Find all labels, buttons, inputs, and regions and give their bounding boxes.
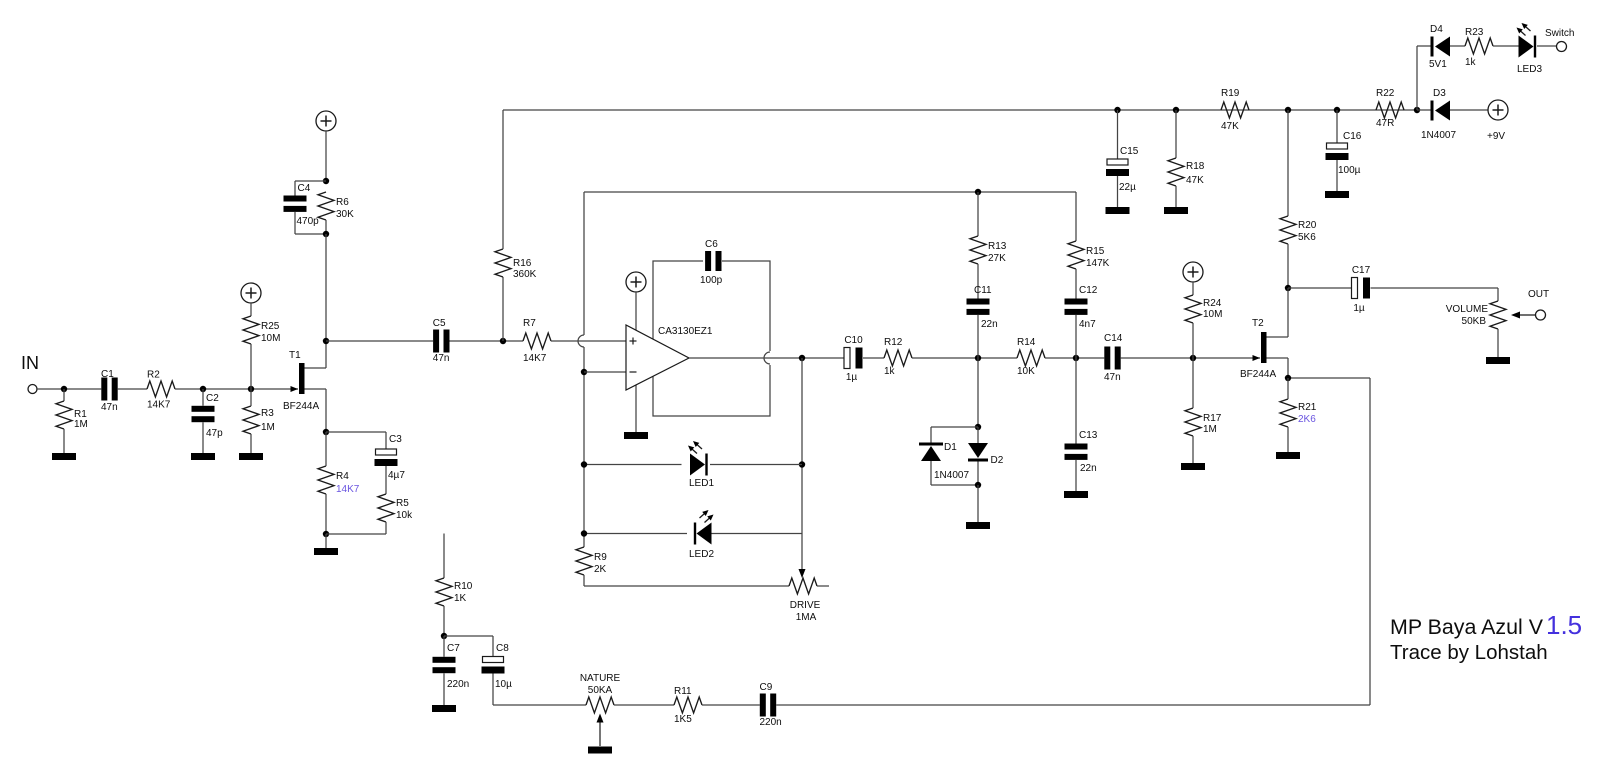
wire bbox=[1417, 45, 1431, 47]
svg-text:2K: 2K bbox=[594, 564, 607, 575]
wire bbox=[325, 432, 327, 466]
svg-text:R5: R5 bbox=[396, 498, 409, 509]
svg-text:1k: 1k bbox=[1465, 57, 1477, 68]
capacitor C2 bbox=[192, 393, 224, 439]
svg-text:27K: 27K bbox=[988, 253, 1006, 264]
wire bbox=[1288, 377, 1370, 379]
wire bbox=[1045, 357, 1104, 359]
svg-text:10K: 10K bbox=[1017, 366, 1035, 377]
svg-text:C12: C12 bbox=[1079, 285, 1098, 296]
ground bbox=[314, 548, 338, 555]
svg-text:47n: 47n bbox=[433, 353, 450, 364]
wire bbox=[931, 484, 978, 486]
wire bbox=[1267, 357, 1289, 359]
svg-text:4n7: 4n7 bbox=[1079, 319, 1096, 330]
capacitor C9 bbox=[760, 682, 782, 728]
junction bbox=[1285, 107, 1291, 113]
wire bbox=[385, 432, 387, 449]
junction bbox=[200, 386, 206, 392]
svg-text:LED1: LED1 bbox=[689, 478, 714, 489]
wire bbox=[583, 347, 585, 547]
svg-text:Switch: Switch bbox=[1545, 28, 1574, 39]
wire bbox=[502, 277, 504, 341]
wire bbox=[325, 534, 327, 548]
svg-text:R3: R3 bbox=[261, 408, 274, 419]
svg-text:D2: D2 bbox=[991, 455, 1004, 466]
svg-text:C7: C7 bbox=[447, 643, 460, 654]
wire bbox=[614, 704, 674, 706]
wire bbox=[1175, 110, 1177, 158]
wire bbox=[931, 426, 978, 428]
diode D4 bbox=[1429, 24, 1450, 70]
svg-text:R19: R19 bbox=[1221, 88, 1240, 99]
wire bbox=[1075, 269, 1077, 299]
svg-text:1M: 1M bbox=[1203, 424, 1217, 435]
wire bbox=[635, 292, 637, 432]
capacitor C8 bbox=[482, 643, 513, 690]
svg-text:OUT: OUT bbox=[1528, 289, 1549, 300]
svg-text:NATURE: NATURE bbox=[580, 673, 621, 684]
op-amp U1 bbox=[626, 325, 713, 390]
ground bbox=[1181, 463, 1205, 470]
wire bbox=[1450, 109, 1488, 111]
wire bbox=[1287, 427, 1289, 452]
wire bbox=[1175, 186, 1177, 207]
junction bbox=[799, 355, 805, 361]
wire bbox=[977, 315, 979, 358]
junction bbox=[975, 189, 981, 195]
power +9V bbox=[1488, 100, 1508, 120]
resistor R2 bbox=[147, 370, 175, 411]
diode D2 bbox=[968, 443, 1004, 466]
svg-text:BF244A: BF244A bbox=[283, 401, 319, 412]
capacitor C15 bbox=[1106, 146, 1139, 193]
wire bbox=[1075, 315, 1077, 358]
junction bbox=[975, 482, 981, 488]
capacitor C14 bbox=[1104, 333, 1123, 383]
wire - top rail bbox=[503, 109, 1417, 111]
svg-text:R23: R23 bbox=[1465, 27, 1484, 38]
svg-text:147K: 147K bbox=[1086, 258, 1110, 269]
power +V bbox=[316, 111, 336, 131]
svg-text:D1: D1 bbox=[944, 442, 957, 453]
svg-text:47K: 47K bbox=[1221, 121, 1239, 132]
transistor T2 bbox=[1240, 318, 1276, 380]
junction bbox=[581, 530, 587, 536]
wire bbox=[1075, 358, 1077, 444]
svg-text:1K: 1K bbox=[454, 593, 467, 604]
wire bbox=[305, 367, 327, 369]
svg-text:2K6: 2K6 bbox=[1298, 414, 1316, 425]
svg-text:Trace by Lohstah: Trace by Lohstah bbox=[1390, 641, 1548, 664]
svg-text:10M: 10M bbox=[261, 333, 280, 344]
wire hop bbox=[578, 335, 584, 347]
wire - second rail bbox=[584, 191, 1076, 193]
resistor R22 bbox=[1376, 88, 1404, 129]
ground bbox=[432, 705, 456, 712]
output terminal bbox=[1536, 310, 1546, 320]
wire bbox=[443, 636, 445, 657]
wire bbox=[250, 389, 252, 406]
svg-text:100µ: 100µ bbox=[1338, 165, 1361, 176]
junction bbox=[323, 231, 329, 237]
svg-text:T2: T2 bbox=[1252, 318, 1264, 329]
resistor R16 bbox=[495, 249, 537, 280]
svg-text:R6: R6 bbox=[336, 197, 349, 208]
ground bbox=[1164, 207, 1188, 214]
power +V bbox=[1183, 262, 1203, 282]
svg-text:50KA: 50KA bbox=[588, 685, 613, 696]
resistor R7 bbox=[523, 318, 551, 364]
capacitor C6 bbox=[700, 239, 723, 286]
svg-text:5K6: 5K6 bbox=[1298, 232, 1316, 243]
resistor DRIVE pot bbox=[789, 578, 817, 594]
junction bbox=[1285, 375, 1291, 381]
svg-text:C17: C17 bbox=[1352, 265, 1371, 276]
svg-text:1.5: 1.5 bbox=[1546, 610, 1582, 640]
svg-text:22n: 22n bbox=[1080, 463, 1097, 474]
resistor R9 bbox=[576, 547, 607, 575]
potentiometer VOLUME wiper arrow bbox=[1511, 312, 1536, 319]
svg-text:D4: D4 bbox=[1430, 24, 1443, 35]
svg-text:VOLUME: VOLUME bbox=[1446, 304, 1489, 315]
wire bbox=[912, 357, 1017, 359]
wire hop bbox=[764, 351, 772, 365]
svg-text:R16: R16 bbox=[513, 258, 532, 269]
wire bbox=[443, 606, 445, 636]
junction bbox=[1414, 107, 1420, 113]
wire bbox=[295, 180, 326, 182]
svg-text:47R: 47R bbox=[1376, 118, 1394, 129]
resistor R11 bbox=[674, 686, 702, 725]
wire bbox=[977, 264, 979, 299]
wire bbox=[326, 340, 433, 342]
ground bbox=[1325, 191, 1349, 198]
wire bbox=[250, 434, 252, 453]
svg-text:C2: C2 bbox=[206, 393, 219, 404]
svg-text:BF244A: BF244A bbox=[1240, 369, 1276, 380]
wire bbox=[1192, 358, 1194, 408]
svg-text:1M: 1M bbox=[261, 422, 275, 433]
junction bbox=[1173, 107, 1179, 113]
capacitor C10 bbox=[844, 335, 863, 383]
power +V bbox=[241, 283, 261, 303]
svg-text:R10: R10 bbox=[454, 581, 473, 592]
svg-text:T1: T1 bbox=[289, 350, 301, 361]
svg-text:1N4007: 1N4007 bbox=[1421, 130, 1456, 141]
wire bbox=[325, 389, 327, 432]
junction bbox=[1114, 107, 1120, 113]
wire bbox=[551, 340, 626, 342]
svg-text:22n: 22n bbox=[981, 319, 998, 330]
resistor R19 bbox=[1221, 88, 1249, 132]
svg-text:1µ: 1µ bbox=[846, 372, 858, 383]
svg-text:R15: R15 bbox=[1086, 246, 1105, 257]
svg-text:30K: 30K bbox=[336, 209, 354, 220]
wire bbox=[326, 533, 386, 535]
LED LED1 bbox=[688, 441, 714, 489]
switch terminal bbox=[1557, 42, 1567, 52]
wire bbox=[583, 575, 585, 586]
svg-text:D3: D3 bbox=[1433, 88, 1446, 99]
svg-text:47p: 47p bbox=[206, 428, 223, 439]
wire bbox=[712, 533, 803, 535]
svg-text:22µ: 22µ bbox=[1119, 182, 1136, 193]
wire bbox=[584, 585, 789, 587]
svg-text:1K5: 1K5 bbox=[674, 714, 692, 725]
resistor R23 bbox=[1465, 27, 1493, 68]
junction bbox=[975, 424, 981, 430]
wire - output bbox=[689, 357, 845, 359]
junction bbox=[61, 386, 67, 392]
wire bbox=[977, 192, 979, 236]
svg-text:R21: R21 bbox=[1298, 402, 1317, 413]
resistor R13 bbox=[970, 236, 1007, 264]
resistor R25 bbox=[243, 316, 280, 344]
title text bbox=[1390, 610, 1582, 664]
wire bbox=[385, 466, 387, 494]
wire - bottom rail bbox=[493, 704, 586, 706]
wire bbox=[1287, 288, 1289, 337]
wire bbox=[1287, 110, 1289, 216]
junction bbox=[500, 338, 506, 344]
svg-text:C5: C5 bbox=[433, 318, 446, 329]
wire bbox=[492, 636, 494, 657]
ground bbox=[624, 432, 648, 439]
svg-text:R11: R11 bbox=[674, 686, 692, 697]
resistor R10 bbox=[436, 578, 473, 606]
wire - right feedback riser bbox=[1369, 378, 1371, 705]
ground bbox=[191, 453, 215, 460]
svg-text:R17: R17 bbox=[1203, 413, 1222, 424]
ground bbox=[588, 747, 612, 754]
svg-text:C15: C15 bbox=[1120, 146, 1139, 157]
wire bbox=[1450, 45, 1465, 47]
svg-text:R9: R9 bbox=[594, 552, 607, 563]
wire bbox=[1416, 46, 1418, 110]
wire bbox=[584, 464, 682, 466]
resistor NATURE pot bbox=[586, 697, 614, 713]
wire bbox=[1117, 176, 1119, 207]
resistor R4 bbox=[318, 466, 334, 494]
svg-text:47n: 47n bbox=[1104, 372, 1121, 383]
wire bbox=[1417, 109, 1431, 111]
resistor R3 bbox=[243, 406, 275, 434]
resistor R14 bbox=[1017, 337, 1045, 377]
svg-text:R12: R12 bbox=[884, 337, 903, 348]
junction bbox=[441, 633, 447, 639]
wire bbox=[583, 192, 585, 335]
svg-text:C4: C4 bbox=[298, 183, 311, 194]
wire bbox=[450, 340, 524, 342]
wire bbox=[250, 344, 252, 389]
svg-text:C14: C14 bbox=[1104, 333, 1123, 344]
diode D3 bbox=[1421, 88, 1456, 141]
resistor R17 bbox=[1185, 408, 1222, 436]
feedback box bbox=[653, 261, 770, 416]
junction bbox=[248, 386, 254, 392]
svg-text:LED3: LED3 bbox=[1517, 64, 1542, 75]
svg-text:47K: 47K bbox=[1186, 175, 1204, 186]
svg-text:220n: 220n bbox=[447, 679, 469, 690]
resistor R18 bbox=[1168, 158, 1205, 186]
svg-text:C16: C16 bbox=[1343, 131, 1362, 142]
svg-text:DRIVE: DRIVE bbox=[790, 600, 821, 611]
wire bbox=[817, 585, 829, 587]
junction bbox=[1285, 285, 1291, 291]
resistor R24 bbox=[1185, 295, 1222, 323]
wire bbox=[1267, 336, 1289, 338]
wire bbox=[1192, 323, 1194, 358]
wire bbox=[1287, 378, 1289, 399]
ground bbox=[1276, 452, 1300, 459]
junction bbox=[581, 461, 587, 467]
junction bbox=[799, 461, 805, 467]
wire bbox=[1075, 192, 1077, 241]
wire bbox=[63, 389, 65, 401]
ground bbox=[1486, 357, 1510, 364]
wire bbox=[1497, 329, 1499, 357]
capacitor C1 bbox=[101, 369, 118, 413]
wire bbox=[492, 674, 494, 706]
wire bbox=[305, 388, 327, 390]
wire bbox=[977, 462, 979, 486]
svg-text:10k: 10k bbox=[396, 510, 413, 521]
wire bbox=[930, 461, 932, 485]
svg-text:1N4007: 1N4007 bbox=[934, 470, 969, 481]
capacitor C5 bbox=[433, 318, 450, 364]
wire bbox=[325, 234, 327, 341]
svg-text:5V1: 5V1 bbox=[1429, 59, 1447, 70]
wire bbox=[1497, 288, 1499, 301]
junction bbox=[323, 531, 329, 537]
svg-text:C8: C8 bbox=[496, 643, 509, 654]
wire bbox=[584, 533, 687, 535]
transistor T1 bbox=[283, 350, 319, 412]
svg-text:LED2: LED2 bbox=[689, 549, 714, 560]
wire bbox=[977, 427, 979, 443]
svg-text:470p: 470p bbox=[297, 216, 320, 227]
junction bbox=[323, 429, 329, 435]
svg-text:C6: C6 bbox=[705, 239, 718, 250]
wire bbox=[443, 534, 445, 579]
wire bbox=[325, 131, 327, 181]
wire bbox=[1493, 45, 1519, 47]
wire bbox=[202, 389, 204, 406]
wire bbox=[37, 388, 101, 390]
svg-text:R4: R4 bbox=[336, 471, 349, 482]
wire bbox=[325, 341, 327, 368]
resistor R21 bbox=[1280, 399, 1296, 427]
junction bbox=[323, 178, 329, 184]
resistor R15 bbox=[1068, 241, 1110, 269]
junction bbox=[323, 338, 329, 344]
svg-text:R25: R25 bbox=[261, 321, 280, 332]
wire bbox=[294, 181, 296, 196]
capacitor C17 bbox=[1352, 265, 1371, 314]
ground bbox=[1064, 491, 1088, 498]
svg-text:R13: R13 bbox=[988, 241, 1007, 252]
ground bbox=[239, 453, 263, 460]
resistor VOLUME pot bbox=[1490, 301, 1506, 329]
resistor R20 bbox=[1280, 216, 1317, 244]
junction bbox=[581, 369, 587, 375]
wire bbox=[1192, 436, 1194, 463]
svg-text:10µ: 10µ bbox=[495, 679, 512, 690]
wire bbox=[1192, 282, 1194, 295]
wire bbox=[325, 220, 327, 234]
svg-text:1M: 1M bbox=[74, 419, 88, 430]
svg-text:R24: R24 bbox=[1203, 298, 1222, 309]
wire bbox=[1287, 358, 1289, 378]
svg-text:CA3130EZ1: CA3130EZ1 bbox=[658, 326, 713, 337]
wire bbox=[1075, 460, 1077, 491]
junction bbox=[1190, 355, 1196, 361]
junction bbox=[975, 355, 981, 361]
svg-text:1MA: 1MA bbox=[796, 612, 817, 623]
capacitor C7 bbox=[433, 643, 470, 690]
LED LED2 bbox=[689, 510, 714, 560]
capacitor C16 bbox=[1326, 131, 1362, 176]
resistor R6 bbox=[318, 192, 354, 220]
svg-text:220n: 220n bbox=[760, 717, 782, 728]
power +V bbox=[626, 272, 646, 292]
svg-text:R2: R2 bbox=[147, 370, 160, 381]
wire bbox=[175, 388, 298, 390]
svg-text:10M: 10M bbox=[1203, 309, 1222, 320]
svg-text:C3: C3 bbox=[389, 434, 402, 445]
wire bbox=[295, 233, 326, 235]
wire bbox=[1288, 287, 1353, 289]
svg-text:360K: 360K bbox=[513, 269, 537, 280]
svg-text:47n: 47n bbox=[101, 402, 118, 413]
potentiometer NATURE wiper arrow bbox=[597, 714, 604, 747]
wire bbox=[443, 673, 445, 705]
wire bbox=[1117, 110, 1119, 159]
resistor R1 bbox=[56, 401, 88, 430]
wire - bottom rail bbox=[776, 704, 1370, 706]
junction bbox=[1073, 355, 1079, 361]
svg-text:R7: R7 bbox=[523, 318, 536, 329]
input terminal bbox=[28, 385, 37, 394]
svg-text:4µ7: 4µ7 bbox=[388, 470, 405, 481]
svg-text:R14: R14 bbox=[1017, 337, 1036, 348]
wire bbox=[1336, 160, 1338, 191]
wire bbox=[502, 110, 504, 249]
svg-text:C11: C11 bbox=[974, 285, 992, 296]
ground bbox=[966, 522, 990, 529]
wire bbox=[801, 358, 803, 569]
wire bbox=[294, 212, 296, 234]
resistor R5 bbox=[378, 494, 413, 522]
svg-text:100p: 100p bbox=[700, 275, 723, 286]
svg-text:IN: IN bbox=[21, 353, 39, 373]
svg-text:14K7: 14K7 bbox=[336, 484, 360, 495]
potentiometer DRIVE wiper arrow bbox=[799, 569, 806, 578]
wire bbox=[118, 388, 147, 390]
wire bbox=[977, 358, 979, 427]
wire bbox=[710, 464, 802, 466]
capacitor C12 bbox=[1065, 285, 1098, 330]
svg-text:C9: C9 bbox=[760, 682, 773, 693]
svg-text:14K7: 14K7 bbox=[523, 353, 547, 364]
ground bbox=[1106, 207, 1130, 214]
svg-text:1k: 1k bbox=[884, 366, 896, 377]
capacitor C3 bbox=[375, 434, 406, 481]
diode D1 bbox=[919, 442, 957, 461]
svg-text:R18: R18 bbox=[1186, 161, 1205, 172]
wire bbox=[1287, 244, 1289, 288]
